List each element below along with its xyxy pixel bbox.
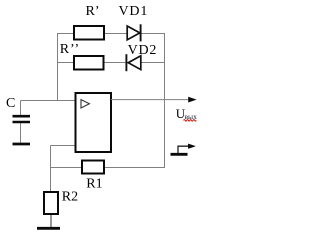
common terminal arrowhead: [188, 144, 195, 149]
op-amp U1 body: [76, 93, 112, 152]
wire: op-amp output to arrow: [111, 99, 190, 101]
op-amp U1 amplifier triangle symbol: [81, 100, 89, 108]
wire: node to R1 left: [51, 167, 83, 169]
wire: top branch left segment to R': [57, 33, 74, 35]
wire: feedback vertical down to R2: [50, 146, 52, 192]
resistor R': [74, 26, 104, 40]
ground below R2: [37, 227, 60, 230]
wire: R' to VD1: [104, 33, 127, 35]
capacitor C plates: [13, 116, 31, 122]
wire: R1 right to right rail: [105, 167, 166, 169]
resistor R'': [74, 56, 104, 70]
wire: common terminal arrow stem: [178, 146, 189, 153]
wire: VD2 to right rail: [141, 62, 165, 64]
node Uout label: [176, 106, 197, 121]
svg-text:C: C: [6, 96, 15, 111]
wire: capacitor bottom lead to ground: [20, 123, 22, 144]
wire: right rail: [164, 33, 166, 168]
wire: capacitor top lead: [20, 101, 22, 116]
resistor R2: [44, 192, 58, 214]
diode VD1: [127, 24, 140, 41]
svg-text:VD1: VD1: [119, 4, 149, 19]
wire: input node horizontal from capacitor C to op-amp noninverting input: [21, 100, 76, 102]
common terminal ground bar (bottom right): [171, 153, 188, 156]
wire: second branch left segment to R'': [57, 62, 74, 64]
svg-text:R’’: R’’: [60, 42, 80, 57]
wire: VD1 to right rail: [141, 33, 165, 35]
svg-text:R’: R’: [86, 4, 100, 19]
resistor R1: [82, 161, 104, 174]
wire: op-amp inverting input horizontal: [51, 145, 76, 147]
wire: R'' to VD2: [104, 62, 126, 64]
ground below capacitor: [13, 143, 31, 146]
wire: left rail from top branch down to op-amp input node: [57, 33, 59, 101]
output arrowhead: [189, 97, 196, 102]
svg-text:VD2: VD2: [128, 43, 158, 58]
svg-text:R2: R2: [62, 190, 78, 205]
wire: R2 bottom lead to ground: [50, 214, 52, 228]
svg-text:R1: R1: [86, 177, 102, 192]
diode VD2: [126, 54, 140, 71]
